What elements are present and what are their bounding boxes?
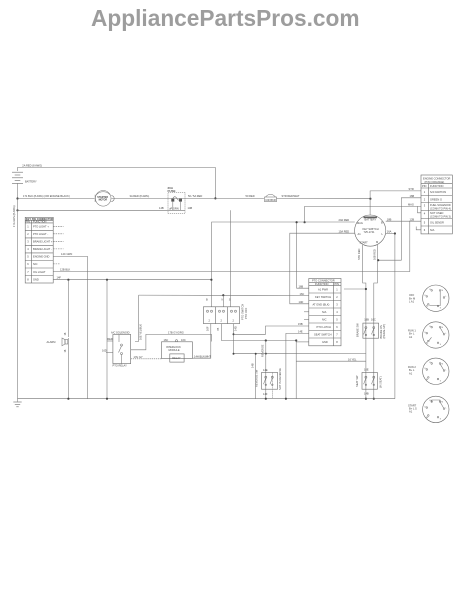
wire 14H BLK/WHT module to PTO switch: [192, 324, 211, 359]
svg-text:L: L: [382, 232, 384, 236]
svg-text:14B: 14B: [364, 392, 369, 396]
node junction 14B: [16, 209, 18, 211]
svg-text:REVERSE SW: REVERSE SW: [255, 369, 259, 387]
svg-text:ALARM: ALARM: [47, 340, 56, 344]
svg-text:16 YEL: 16 YEL: [348, 357, 357, 361]
svg-text:3: 3: [27, 240, 29, 244]
reverse safety switch S5: [255, 368, 282, 399]
node junction key switch M branch: [377, 259, 379, 261]
svg-text:A1: A1: [426, 416, 428, 419]
svg-text:M: M: [442, 327, 444, 329]
key position diagram OFF: [409, 285, 449, 311]
svg-text:16F: 16F: [206, 326, 210, 331]
svg-text:16E: 16E: [364, 368, 369, 372]
wire stub connector pin 2: [53, 233, 63, 235]
svg-text:STR: STR: [409, 187, 414, 191]
wire stub PTO connector pin 5: [304, 318, 309, 320]
svg-text:MODULE: MODULE: [169, 348, 180, 352]
svg-text:KEY SWITCH: KEY SWITCH: [315, 295, 331, 299]
wire 17H GY relay to interlock module: [131, 355, 162, 359]
wire 14C GRN pin 5: [53, 252, 87, 399]
wire stub connector pin 6: [53, 263, 60, 265]
svg-text:S: S: [440, 419, 442, 421]
svg-text:14B: 14B: [188, 206, 193, 210]
ground symbol: [13, 399, 21, 407]
node junction MAG tap: [304, 221, 306, 223]
svg-text:PTO LIGHT -: PTO LIGHT -: [33, 232, 48, 236]
node junction 16B tap: [296, 221, 298, 223]
logo AppliancePartsPros.com: [91, 5, 360, 32]
svg-text:MOTOR: MOTOR: [99, 200, 108, 202]
svg-text:17H GY: 17H GY: [134, 355, 143, 359]
svg-text:171 BLK (8 AWG) (OR ENGINE BLA: 171 BLK (8 AWG) (OR ENGINE BLACK): [23, 194, 70, 198]
wire 20A RED key switch feed: [212, 218, 355, 307]
svg-text:16A: 16A: [387, 230, 392, 234]
svg-text:SEAT SW: SEAT SW: [355, 375, 359, 387]
wire stub PTO connector pin 4: [304, 311, 309, 313]
engine connector table: [421, 175, 452, 234]
wire reverse switch drop: [261, 341, 266, 399]
svg-text:N/C: N/C: [33, 262, 38, 266]
svg-text:14H BLK/WHT: 14H BLK/WHT: [194, 354, 211, 358]
svg-text:M: M: [442, 363, 444, 365]
wire 171 BLK to starter: [18, 194, 95, 199]
pin letters key position circle: [424, 362, 446, 382]
svg-text:A1 PWR: A1 PWR: [318, 288, 328, 292]
wire 16E drop from PTO rail: [135, 295, 143, 341]
wire seat sense riser to PTO connector pin 7: [286, 330, 309, 399]
svg-text:S/4 IGNITION: S/4 IGNITION: [430, 190, 446, 194]
svg-text:NOT USED: NOT USED: [430, 211, 443, 215]
wire key switch START drop: [357, 245, 369, 399]
wire stub connector pin 3: [53, 240, 63, 242]
wire MAG to engine connector pin 3: [305, 203, 421, 223]
node junction seat switch 2 to rail: [373, 398, 375, 400]
wire 15A RED to PTO connector pin 3: [290, 229, 355, 303]
pin letters key position circle: [424, 400, 446, 420]
key position diagram RUN 1: [408, 322, 449, 348]
svg-text:BRAKE SW: BRAKE SW: [356, 323, 360, 337]
wire fuse 14B drop to pin S: [230, 210, 232, 306]
svg-text:B+: B+: [430, 326, 432, 328]
svg-text:GND: GND: [33, 277, 39, 281]
wire 16A key switch L terminal: [386, 230, 395, 234]
node junction 14F alarm: [67, 279, 69, 281]
svg-text:MAG: MAG: [357, 221, 363, 225]
svg-text:N/A: N/A: [430, 228, 435, 232]
wire 14B battery to fuse bottom: [18, 206, 169, 211]
brake switch S2: [356, 323, 386, 339]
svg-text:12B BLK: 12B BLK: [60, 268, 71, 272]
ground lead left rail 17A GRN: [12, 199, 18, 399]
svg-text:5: 5: [27, 255, 29, 259]
wire 12B BLK pin 7: [53, 268, 410, 272]
svg-text:A1: A1: [426, 378, 428, 381]
svg-text:50 RED: 50 RED: [246, 194, 255, 198]
svg-text:16B: 16B: [364, 318, 369, 322]
svg-text:(P/N) (ORANGE): (P/N) (ORANGE): [425, 180, 445, 184]
svg-text:L A1: L A1: [409, 300, 415, 304]
node junction pin3 bus: [233, 353, 235, 355]
wire B+ top rail 2A RED: [18, 164, 216, 199]
svg-text:B: B: [206, 297, 208, 301]
svg-text:725-1741: 725-1741: [364, 230, 376, 234]
svg-text:M: M: [442, 290, 444, 292]
svg-text:8: 8: [27, 277, 29, 281]
wire stub connector pin 1: [53, 225, 63, 227]
node junction 14F end: [210, 279, 212, 281]
svg-text:PTO OFF: PTO OFF: [244, 307, 248, 319]
wire 50 RED fuse to breaker: [185, 194, 264, 199]
svg-text:17B GY/ORG: 17B GY/ORG: [168, 330, 184, 334]
svg-text:2A RED (8 AWG): 2A RED (8 AWG): [22, 164, 42, 168]
svg-text:FUSE: FUSE: [168, 189, 176, 193]
pin letters key position circle: [424, 289, 446, 309]
svg-text:4: 4: [27, 247, 29, 251]
wire 16B to engine connector pin 2: [378, 194, 421, 260]
svg-text:7: 7: [27, 270, 29, 274]
wire to PTO connector pin 8: [296, 341, 309, 343]
wire alarm branch: [67, 280, 69, 337]
svg-text:A1: A1: [426, 305, 428, 308]
svg-text:12B: 12B: [410, 217, 415, 221]
svg-text:M: M: [442, 401, 444, 403]
svg-text:4: 4: [336, 310, 338, 314]
svg-text:20A RED: 20A RED: [339, 218, 350, 222]
svg-text:(CONN TO PIN 3): (CONN TO PIN 3): [430, 214, 451, 218]
svg-text:3: 3: [424, 203, 426, 207]
svg-text:(PEDAL UP): (PEDAL UP): [382, 324, 386, 339]
wire starter to fuse 3A RED: [112, 194, 169, 199]
svg-text:16E YEL/BLK: 16E YEL/BLK: [139, 324, 143, 340]
svg-text:14F: 14F: [57, 276, 62, 280]
svg-text:GND: GND: [322, 340, 328, 344]
seat switch S3: [355, 368, 383, 396]
svg-text:1: 1: [27, 225, 29, 229]
svg-text:FUNCTION: FUNCTION: [430, 184, 444, 188]
pin letters key position circle: [424, 326, 446, 346]
svg-text:N/A: N/A: [322, 310, 327, 314]
fuse F1 20A: [168, 186, 193, 213]
node battery negative junction: [16, 197, 18, 199]
svg-text:N/C: N/C: [322, 318, 327, 322]
wire relay ground branch: [106, 280, 108, 399]
svg-text:M: M: [376, 240, 378, 244]
node junction seat switch to rail: [365, 398, 367, 400]
node junction reverse switch tap: [265, 339, 267, 341]
svg-text:S: S: [440, 380, 442, 382]
svg-text:14E: 14E: [298, 330, 303, 334]
svg-text:DELAY: DELAY: [172, 356, 181, 360]
svg-text:7: 7: [336, 333, 338, 337]
svg-text:A1: A1: [409, 335, 413, 339]
wire L drop to ground rail: [394, 234, 396, 399]
svg-text:STR RED/WHT: STR RED/WHT: [282, 194, 300, 198]
key position diagram RUN 2: [408, 358, 449, 384]
circuit breaker CB1: [265, 194, 277, 202]
svg-text:16C: 16C: [300, 292, 305, 296]
interlock module U1: [162, 338, 193, 362]
node junction L terminal: [394, 232, 396, 234]
svg-text:L: L: [446, 333, 447, 335]
node junction B+ feed: [214, 197, 216, 199]
svg-text:A1: A1: [426, 342, 428, 345]
svg-text:6: 6: [424, 228, 426, 232]
svg-text:A1: A1: [409, 371, 413, 375]
svg-text:17A GRN (8 AWG): 17A GRN (8 AWG): [12, 205, 16, 227]
svg-text:16C: 16C: [164, 338, 169, 342]
svg-text:BATTERY: BATTERY: [365, 218, 377, 222]
svg-text:14F: 14F: [263, 392, 268, 396]
wire 16B riser to PTO connector pin 1: [297, 222, 309, 288]
svg-text:BRAKE LIGHT +: BRAKE LIGHT +: [33, 240, 53, 244]
svg-text:BATTERY: BATTERY: [25, 179, 37, 183]
svg-text:START: START: [360, 241, 369, 245]
alarm buzzer: [47, 332, 69, 399]
node junction reverse feed: [265, 353, 267, 355]
svg-text:(IN SEAT): (IN SEAT): [378, 376, 382, 388]
svg-text:uP GRN: uP GRN: [169, 206, 179, 210]
svg-text:PTO RELAY: PTO RELAY: [113, 364, 128, 368]
svg-text:A1: A1: [409, 410, 413, 414]
svg-text:STARTER: STARTER: [97, 196, 108, 199]
svg-text:1: 1: [336, 288, 338, 292]
svg-text:16C: 16C: [181, 338, 186, 342]
svg-text:15A RED: 15A RED: [339, 229, 350, 233]
svg-text:PTO LATCH: PTO LATCH: [317, 325, 331, 329]
svg-text:S: S: [440, 307, 442, 309]
svg-text:2: 2: [27, 232, 29, 236]
PTO clutch relay K1: [102, 331, 131, 368]
svg-text:7B: 7B: [216, 328, 220, 331]
svg-text:A/C SOLENOID: A/C SOLENOID: [111, 331, 130, 335]
wire 16B PTO connector pin1 to start circuit: [344, 288, 367, 290]
wire STR to engine connector pin 1: [370, 187, 421, 215]
svg-text:REVERSE: REVERSE: [261, 344, 265, 357]
svg-text:2: 2: [221, 319, 223, 323]
ground rail bottom: [18, 398, 395, 400]
wire stub engine connector pin 6: [416, 227, 421, 230]
svg-text:OIL LIGHT: OIL LIGHT: [33, 270, 46, 274]
wire 12B to engine connector pin 5: [386, 217, 421, 271]
svg-text:FUEL SOLENOID: FUEL SOLENOID: [430, 203, 451, 207]
wire PTO switch pin2 lower bus: [216, 324, 296, 341]
svg-text:AT GND (BLK): AT GND (BLK): [313, 303, 330, 307]
svg-text:CIR BKR: CIR BKR: [265, 198, 276, 202]
wire STR RED/WHT breaker to key switch junction: [277, 194, 371, 199]
svg-text:14E: 14E: [263, 368, 268, 372]
svg-text:4: 4: [424, 211, 426, 215]
wire PTO switch pin3 to PTO latch: [233, 322, 366, 354]
svg-text:B: B: [381, 221, 383, 225]
svg-text:3A RED (8 AWG): 3A RED (8 AWG): [130, 194, 150, 198]
svg-text:16: 16: [63, 349, 67, 352]
wire stub connector pin 4: [53, 248, 63, 250]
svg-text:L: L: [446, 407, 447, 409]
svg-text:L: L: [446, 296, 447, 298]
svg-text:ENGINE CONNECTOR: ENGINE CONNECTOR: [423, 176, 450, 180]
wire gnd drop to rail: [295, 341, 297, 399]
svg-text:NOT IN REVERSE: NOT IN REVERSE: [278, 368, 282, 390]
svg-text:PIN: PIN: [422, 184, 426, 188]
svg-text:18B: 18B: [387, 217, 392, 221]
svg-text:MAG: MAG: [408, 203, 414, 207]
svg-text:B+: B+: [430, 362, 432, 364]
svg-text:B+: B+: [430, 289, 432, 291]
starter motor M1: [95, 191, 114, 207]
svg-text:16D: 16D: [102, 348, 107, 352]
svg-text:OIL SENDR: OIL SENDR: [430, 220, 444, 224]
wire relay feed 16E YEL/BLK: [131, 330, 212, 349]
node junction gnd drop: [295, 339, 297, 341]
wire key switch M drop: [371, 245, 377, 399]
svg-text:2: 2: [336, 295, 338, 299]
svg-text:50 / 5A RED: 50 / 5A RED: [188, 194, 202, 198]
svg-text:5: 5: [424, 220, 426, 224]
svg-text:L: L: [446, 369, 447, 371]
svg-text:BRAKE LIGHT -: BRAKE LIGHT -: [33, 247, 52, 251]
svg-text:5: 5: [336, 318, 338, 322]
key position diagram START: [408, 396, 449, 422]
svg-text:GREEN G: GREEN G: [430, 197, 442, 201]
wire 16 YEL seat feed: [296, 357, 366, 361]
key switch S1: [355, 215, 386, 246]
PTO switch S4: [203, 297, 247, 323]
svg-text:2: 2: [424, 197, 426, 201]
wire 14F ground bus pin 8: [53, 276, 211, 280]
svg-text:2: 2: [233, 319, 235, 323]
PTO connector table: [309, 279, 341, 346]
svg-text:3: 3: [336, 303, 338, 307]
node junction relay branch to rail: [106, 398, 108, 400]
svg-text:2: 2: [209, 319, 211, 323]
svg-text:16C: 16C: [371, 318, 376, 322]
svg-text:16B: 16B: [299, 284, 304, 288]
node junction 14F relay: [106, 279, 108, 281]
wire drop to ground rail 14B: [251, 353, 257, 399]
svg-text:6: 6: [336, 325, 338, 329]
svg-text:B+: B+: [430, 400, 432, 402]
svg-text:14D: 14D: [299, 300, 304, 304]
svg-text:SEAT SWITCH: SEAT SWITCH: [314, 333, 332, 337]
node junction reverse to rail: [265, 398, 267, 400]
svg-text:16B RED: 16B RED: [372, 249, 376, 260]
svg-text:RED: RED: [107, 337, 113, 341]
svg-text:8: 8: [336, 340, 338, 344]
node junction at key switch feed: [369, 198, 371, 200]
svg-text:15B: 15B: [298, 322, 303, 326]
svg-text:14B: 14B: [251, 363, 255, 368]
svg-text:6: 6: [27, 262, 29, 266]
svg-text:16B: 16B: [410, 194, 415, 198]
node junction alarm to rail: [67, 398, 69, 400]
svg-text:PTO LIGHT +: PTO LIGHT +: [33, 225, 49, 229]
svg-text:14B: 14B: [159, 206, 164, 210]
svg-text:14D: 14D: [234, 326, 238, 331]
svg-text:ENGINE GND: ENGINE GND: [33, 255, 50, 259]
node junction riser to rail: [285, 398, 287, 400]
svg-text:STR RED: STR RED: [357, 248, 361, 260]
svg-text:S: S: [440, 344, 442, 346]
svg-text:A1: A1: [358, 232, 362, 236]
svg-text:16: 16: [63, 332, 67, 335]
battery: [12, 172, 37, 198]
svg-text:1: 1: [424, 190, 426, 194]
svg-text:14C GRN: 14C GRN: [61, 252, 72, 256]
key switch harness connector table: [25, 217, 53, 283]
svg-text:(CONN TO PIN 4): (CONN TO PIN 4): [430, 206, 451, 210]
wire PTO rail to pin N: [139, 294, 309, 307]
